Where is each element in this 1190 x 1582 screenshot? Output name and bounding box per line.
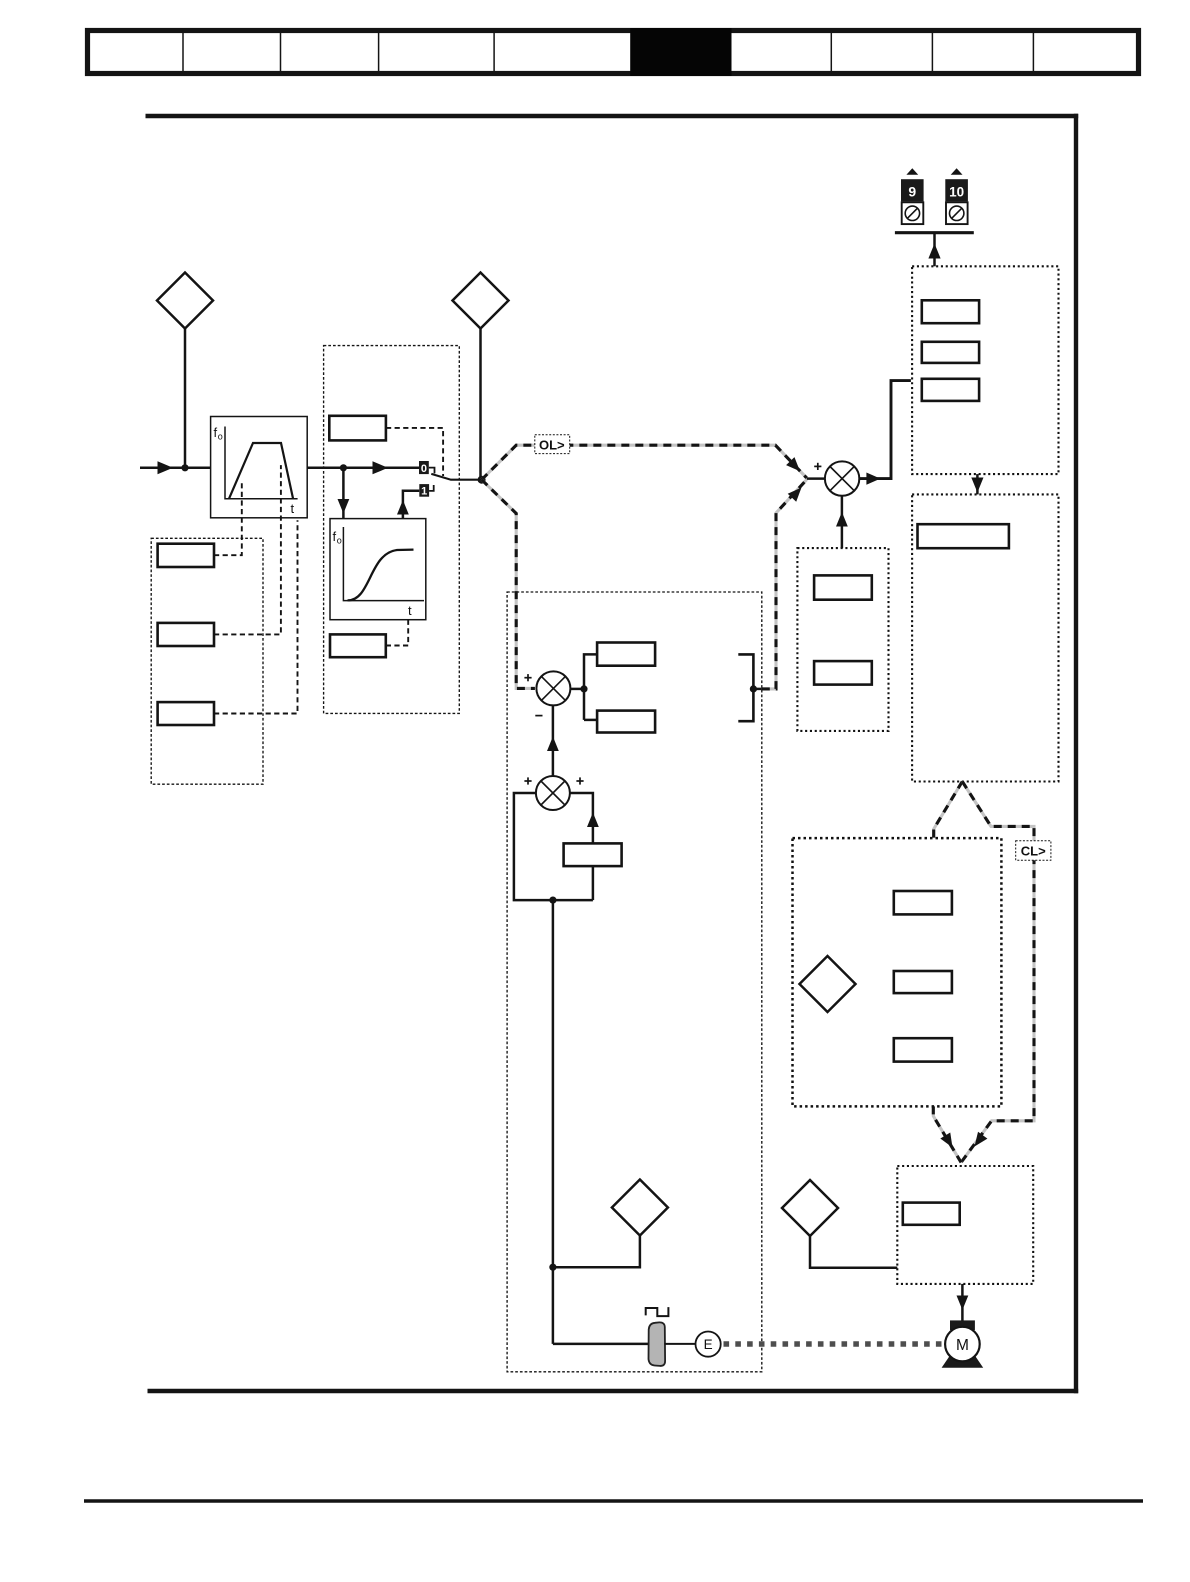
speed loop feedback dashed (bracket to U0 lower input): [753, 688, 762, 691]
ramp plot axes: [225, 427, 298, 499]
OL label: [535, 435, 570, 454]
wire U0 bottom input: [841, 496, 844, 548]
wire U0 merge to circle: [807, 477, 825, 480]
header divider 4: [493, 33, 495, 73]
parameter box P2: [922, 342, 979, 363]
terminal 10 arrow: [951, 168, 963, 175]
parameter box S1: [814, 575, 872, 599]
svg-text:OL>: OL>: [539, 437, 565, 452]
wire encoder feedback riser: [552, 900, 555, 1344]
accel/decel rates dotted box (left): [151, 538, 263, 784]
parameter box ramp unit: [158, 702, 214, 725]
terminal 9 screw box: [902, 202, 924, 224]
minus sign U1: [535, 715, 542, 717]
diamond D2 (mode selector): [453, 273, 509, 329]
header divider 3: [378, 33, 380, 73]
plus sign U0 left input: [814, 465, 821, 467]
ramp block: [211, 417, 308, 518]
switch contact 1: [419, 484, 429, 497]
S ramp curve: [348, 550, 414, 601]
parameter box S ramp rate: [330, 634, 386, 657]
svg-text:CL>: CL>: [1021, 844, 1046, 859]
current control dotted box (bottom right): [897, 1166, 1033, 1284]
header divider 5: [830, 33, 832, 73]
speed reference dashed box (below U0): [797, 548, 888, 731]
terminal 9 number box: [901, 179, 924, 201]
wire connector to encoder circle: [665, 1343, 696, 1345]
wire U2 output up to U1: [552, 705, 555, 776]
parameter box M2: [894, 971, 952, 993]
dashed link ramp unit to ramp plot: [214, 520, 298, 713]
parameter box speed error: [597, 643, 655, 666]
reference dotted box (right, second): [912, 494, 1058, 781]
switch contact 0: [419, 461, 429, 474]
S ramp block: [330, 519, 426, 620]
terminal bus bar: [895, 231, 974, 234]
feedback summing junction U2: [536, 776, 570, 810]
CL route right leg around motor control box: [961, 782, 1034, 1163]
dashed link ramp hold to switch: [386, 428, 443, 476]
node ramp output junction: [340, 464, 347, 471]
CL label: [1016, 841, 1051, 861]
bracket node: [738, 654, 753, 721]
header divider 1: [182, 33, 184, 73]
OL path dashed (switch to U0 upper input): [482, 445, 807, 480]
wire main input: [140, 467, 212, 470]
motor control dashed box: [793, 838, 1002, 1106]
wire output to terminals: [933, 233, 936, 267]
svg-text:9: 9: [908, 184, 916, 200]
plus sign U1: [524, 677, 531, 679]
wire S ramp output to contact 1: [403, 491, 419, 519]
wire U2 right input with gain box: [570, 793, 593, 843]
wire D4 to current box: [810, 1236, 897, 1268]
header black cell: [630, 28, 731, 76]
motor M: [950, 1320, 975, 1330]
node feedback tap: [549, 1264, 556, 1271]
plus sign U2 left: [524, 780, 531, 782]
svg-text:0: 0: [421, 463, 427, 475]
wire D2 drop: [479, 329, 482, 480]
parameter box P1: [922, 300, 979, 323]
parameter box feedback gain: [564, 843, 622, 866]
wire tap to diamond D3: [553, 1236, 640, 1268]
ramp plot trapezoid: [229, 443, 293, 499]
header divider 2: [280, 33, 282, 73]
svg-text:10: 10: [949, 185, 964, 200]
wire D1 drop: [184, 329, 187, 468]
node switch common: [478, 476, 486, 484]
switch lever: [431, 474, 481, 480]
CL route from motor control box bottom: [933, 1106, 961, 1162]
CL path dashed (switch down to speed loop): [482, 480, 535, 689]
wire U1 output: [570, 688, 584, 691]
parameter box M1: [894, 891, 952, 914]
encoder pulse symbol: [646, 1307, 669, 1316]
wire U2 left input: [514, 793, 593, 900]
wire ramp output to switch: [307, 467, 419, 470]
parameter box wide: [918, 524, 1009, 548]
speed error summing junction U1: [536, 671, 570, 705]
wire feedback to encoder: [553, 1343, 649, 1346]
speed controller dotted box (middle): [507, 592, 762, 1372]
terminal 9 arrow: [906, 168, 918, 175]
svg-text:M: M: [956, 1337, 969, 1354]
header divider 6: [931, 33, 933, 73]
parameter box P3: [922, 379, 979, 401]
CL route split from reference box (left leg into motor control box): [934, 782, 963, 839]
wire drop to S-ramp block: [342, 468, 345, 519]
diagram frame right edge: [1074, 114, 1078, 1393]
plus sign U2 right: [576, 780, 583, 782]
svg-text:t: t: [291, 501, 295, 516]
svg-text:E: E: [704, 1337, 713, 1352]
terminal 10 screw box: [946, 202, 968, 224]
dashed link decel rate to ramp plot: [214, 465, 281, 634]
diamond D4 (current monitor): [782, 1180, 838, 1236]
diamond D5 (control monitor): [800, 956, 856, 1012]
node feedback split: [549, 897, 556, 904]
parameter box speed controller output: [597, 711, 655, 733]
parameter box M3: [894, 1038, 952, 1061]
parameter box current: [903, 1203, 960, 1225]
encoder cable gray dotted: [724, 1341, 942, 1347]
parameter box S2: [814, 661, 872, 685]
S ramp axes: [343, 527, 424, 601]
parameter box accel rate: [158, 544, 214, 567]
diagram frame bottom edge: [148, 1389, 1079, 1393]
monitor parameters dotted box (top right): [912, 266, 1058, 474]
encoder E: [696, 1332, 721, 1357]
parameter box decel rate: [158, 623, 214, 646]
wire arrow monitor box to reference box: [976, 474, 979, 494]
header divider 7: [1032, 33, 1034, 73]
svg-text:o: o: [337, 536, 342, 546]
svg-text:o: o: [218, 432, 223, 442]
ramp menu dotted box: [324, 346, 460, 714]
dashed link accel rate to ramp plot: [214, 482, 242, 555]
dashed link S ramp rate: [386, 620, 408, 646]
main summing junction U0: [825, 461, 859, 495]
header table outer border: [88, 31, 1139, 74]
diagram frame top edge: [146, 114, 1079, 118]
diamond D3 (feedback monitor): [612, 1180, 668, 1236]
footer rule: [84, 1499, 1143, 1503]
wire U0 output: [859, 381, 911, 479]
wire current box to motor: [961, 1284, 964, 1322]
node main input junction: [181, 464, 188, 471]
svg-text:t: t: [408, 603, 412, 618]
encoder connector: [649, 1322, 666, 1366]
diamond D1 (reference selector): [157, 273, 213, 329]
terminal 10 number box: [945, 179, 968, 201]
svg-text:1: 1: [421, 486, 427, 498]
parameter box ramp hold: [329, 416, 386, 441]
